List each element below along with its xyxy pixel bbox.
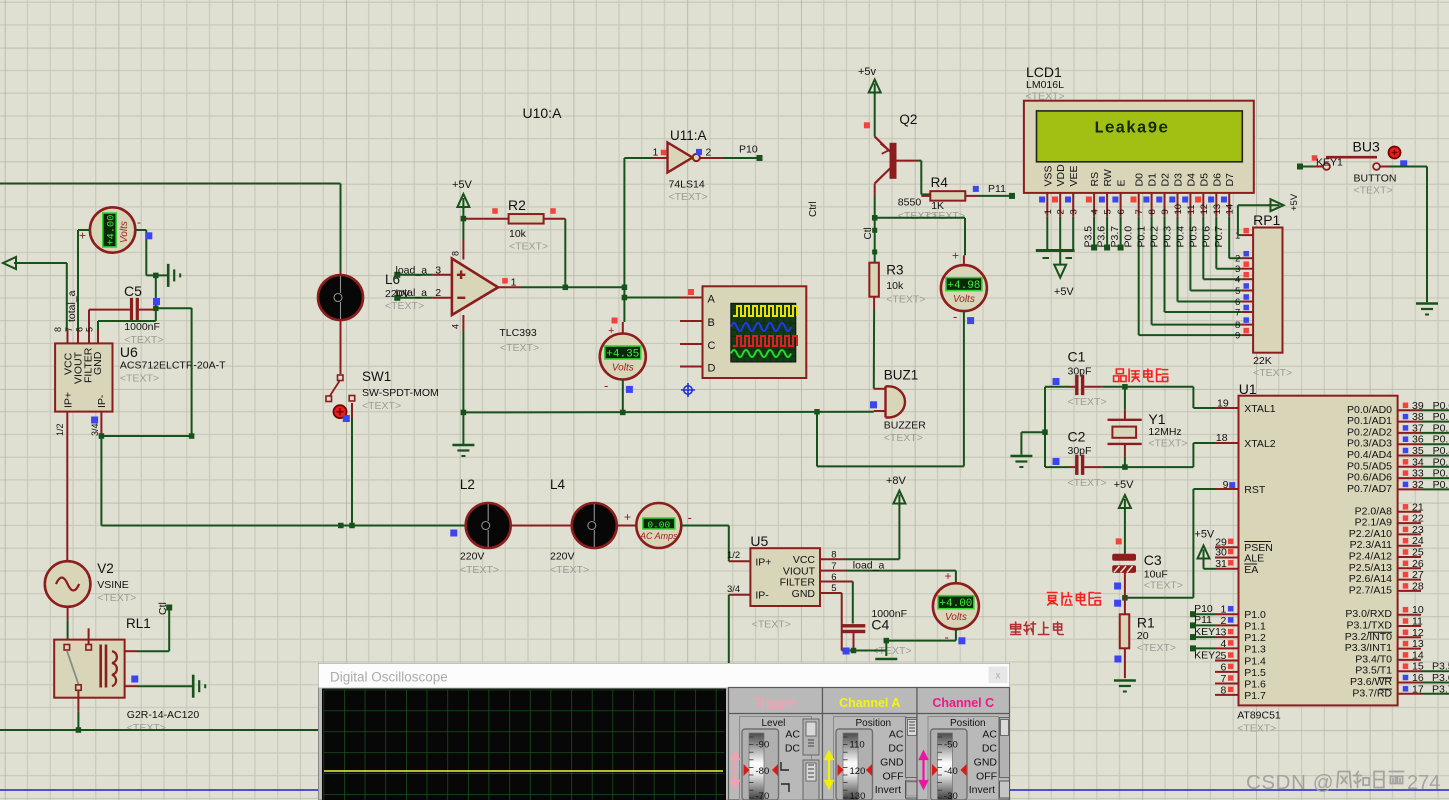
svg-text:10: 10 [1412,604,1424,616]
svg-text:P2.0/A8: P2.0/A8 [1355,505,1393,517]
svg-text:P1.1: P1.1 [1244,620,1266,632]
svg-text:Position: Position [950,718,986,729]
wire U6 GND pin up [97,321,99,331]
capacitor C5 [130,298,133,321]
svg-text:U5: U5 [750,533,768,549]
svg-text:U1: U1 [1239,381,1257,397]
oscilloscope panel Channel C [917,688,1010,800]
svg-text:Invert: Invert [969,784,995,796]
lamp L6 [318,275,363,320]
pin op-amp 1 (output) [498,286,521,288]
wire BU3 to ground [1380,166,1390,168]
svg-text:220V: 220V [460,551,485,563]
pin U5 IP+ 1/2 [729,560,751,562]
svg-text:P0.6/AD6: P0.6/AD6 [1347,472,1392,484]
svg-text:4: 4 [1235,275,1240,286]
svg-text:35: 35 [1412,445,1424,457]
svg-text:BUZ1: BUZ1 [884,368,919,383]
wire C3 to RST node [1124,573,1126,598]
svg-text:<TEXT>: <TEXT> [97,592,136,604]
node collector/voltmeter+ [872,215,878,221]
resistor R1 20 [1124,598,1126,614]
pin RP1 2 [1242,257,1253,259]
ground at crystal circuit [1010,455,1032,458]
svg-text:-: - [604,378,608,393]
svg-text:26: 26 [1412,558,1424,570]
ammeter AC Amps [636,503,681,548]
svg-text:14: 14 [1412,649,1424,661]
transistor Q2 8550 [890,143,897,179]
svg-text:P0.2: P0.2 [1433,422,1449,434]
logic analyser graph [703,286,807,378]
svg-text:U11:A: U11:A [670,128,707,143]
svg-text:+4.35: +4.35 [606,348,639,360]
IC U5 ACS712 [750,548,820,606]
wire C4 bottom net to ground [842,650,887,652]
wire voltmeter +4.35 to meter rail [622,380,624,413]
wire lamp L6 to SW1 [340,320,342,374]
svg-text:34: 34 [1412,456,1424,468]
svg-text:P1.7: P1.7 [1244,690,1266,702]
svg-text:6: 6 [1235,297,1240,308]
svg-text:20: 20 [1137,630,1149,642]
node to graph input A [622,295,628,301]
svg-text:IP+: IP+ [755,556,771,568]
capacitor C3 10uF (polarized) [1112,554,1136,561]
svg-text:AC Amps: AC Amps [639,531,678,541]
net stub load_a to pin 3 [394,272,400,278]
current sensor U6 [55,343,112,411]
svg-text:<TEXT>: <TEXT> [1354,185,1393,197]
svg-text:P3.5: P3.5 [1083,226,1095,248]
svg-text:KEY1: KEY1 [1194,626,1221,638]
svg-text:GND: GND [880,757,904,769]
svg-text:x: x [996,671,1001,682]
overline RD [1379,688,1392,690]
svg-text:<TEXT>: <TEXT> [127,722,166,734]
svg-text:<TEXT>: <TEXT> [884,432,923,444]
svg-text:P0.2: P0.2 [1149,226,1161,248]
svg-text:-: - [953,309,957,324]
svg-text:<TEXT>: <TEXT> [120,373,159,385]
wire R4 to P11 stub [978,195,1011,197]
svg-text:P0.3/AD3: P0.3/AD3 [1347,438,1392,450]
svg-text:8: 8 [831,550,836,561]
pin graph B [680,320,703,322]
svg-text:P3.6: P3.6 [1432,672,1449,684]
svg-text:LCD1: LCD1 [1026,64,1062,80]
wire LCD VSS to ground [1046,217,1048,249]
svg-text:21: 21 [1412,501,1424,513]
svg-text:7: 7 [1235,308,1240,319]
svg-text:RST: RST [1244,484,1266,496]
voltmeter +4.98 [941,265,987,311]
svg-text:3: 3 [1221,627,1227,639]
svg-text:P3.7: P3.7 [1109,226,1121,248]
label crystal circuit (Chinese) [1114,369,1127,382]
svg-text:28: 28 [1412,580,1424,592]
wire RST node to U1 RST pin [1125,597,1194,599]
svg-text:B: B [708,317,715,329]
svg-text:P0.2/AD2: P0.2/AD2 [1347,426,1392,438]
svg-text:DC: DC [982,743,998,755]
svg-text:3: 3 [1069,209,1080,214]
svg-text:P0.0: P0.0 [1123,226,1135,248]
wire C5-net down to IP- node [191,308,193,436]
resistor R3 [869,263,879,297]
wire C1 right to XTAL1 net [1084,386,1102,388]
wire LCD VEE to ground [1072,217,1074,249]
svg-text:P0.4/AD4: P0.4/AD4 [1347,449,1392,461]
pin RP1 5 [1242,290,1253,292]
lamp L2 [466,503,511,548]
svg-text:OFF: OFF [883,771,904,783]
svg-text:110: 110 [850,740,865,751]
pin op-amp 4 [462,315,464,331]
wire output to U11 node [521,286,624,288]
svg-text:IP-: IP- [755,590,769,602]
svg-text:9: 9 [1160,209,1171,214]
pin U6 IP+ 1/2 [66,412,68,437]
sheet border line (blue) [0,789,1449,791]
oscilloscope close button [989,667,1008,684]
svg-text:Ctl: Ctl [863,227,874,239]
svg-text:RL1: RL1 [126,616,151,631]
svg-text:5: 5 [85,327,95,332]
pin RP1 7 [1242,311,1253,313]
svg-text:L2: L2 [460,477,475,492]
svg-text:+5V: +5V [1194,529,1215,541]
svg-text:24: 24 [1412,535,1424,547]
svg-text:E: E [1116,179,1128,186]
wire U6 IP- to load line [100,436,102,526]
svg-text:<TEXT>: <TEXT> [1137,642,1176,654]
svg-text:P0.5: P0.5 [1187,226,1199,248]
svg-text:L4: L4 [550,477,566,492]
wire C2 left [1045,466,1069,468]
svg-text:Position: Position [856,718,892,729]
wire R3 to buzzer [873,297,875,310]
svg-text:4: 4 [1090,209,1101,214]
svg-text:36: 36 [1412,434,1424,446]
svg-text:274: 274 [1407,772,1440,794]
svg-text:27: 27 [1412,569,1424,581]
svg-text:32: 32 [1412,479,1424,491]
svg-text:+: + [624,510,631,524]
label re-power (Chinese) [1011,622,1021,635]
pin RP1 9 [1242,334,1253,336]
svg-text:VCC: VCC [793,554,816,566]
wire to XTAL2 pin [1192,443,1194,467]
svg-text:6: 6 [1221,661,1227,673]
svg-text:P0.5: P0.5 [1433,456,1449,468]
svg-text:<TEXT>: <TEXT> [669,191,708,203]
svg-text:12MHz: 12MHz [1148,426,1181,438]
svg-text:9: 9 [1235,331,1240,342]
svg-text:BU3: BU3 [1353,139,1380,155]
svg-text:AC: AC [785,729,800,741]
inverter U11:A 74LS14 [653,157,668,159]
wire relay coil bottom to ground [125,685,138,687]
trace A yellow [733,306,797,316]
svg-text:P3.0/RXD: P3.0/RXD [1345,608,1392,620]
buzzer BUZ1 [874,388,885,390]
svg-text:<TEXT>: <TEXT> [1144,580,1183,592]
svg-text:BUZZER: BUZZER [884,420,926,432]
pin U5 VCC 8 [820,558,845,560]
svg-text:120: 120 [850,766,866,777]
svg-text:P3.7: P3.7 [1432,683,1449,695]
overline WR [1378,677,1392,679]
svg-text:Leaka9e: Leaka9e [1094,119,1169,138]
label reset circuit (Chinese) [1047,593,1057,606]
pin RP1 3 [1242,268,1253,270]
wire voltmeter- to ground [135,229,146,231]
svg-text:-: - [945,630,949,645]
svg-text:Q2: Q2 [899,112,917,127]
svg-text:Volts: Volts [612,363,634,374]
oscilloscope panel Channel A [823,688,918,800]
svg-text:P11: P11 [1194,614,1212,626]
svg-text:11: 11 [1186,205,1197,215]
svg-text:P1.5: P1.5 [1244,667,1266,679]
pin U5 GND 5 [820,592,842,594]
wire relay coil top to Ctl stub [125,650,137,652]
svg-text:2: 2 [706,147,712,159]
wire main load line [101,525,466,527]
svg-text:D6: D6 [1211,173,1223,187]
svg-text:IP+: IP+ [63,392,75,408]
op-amp U10:A TLC393 [452,259,498,316]
pin RP1 1 [1242,234,1253,236]
svg-text:D4: D4 [1185,173,1197,187]
wire FILTER to C4 [852,582,854,624]
svg-text:D5: D5 [1198,173,1210,187]
pin op-amp 8 [462,241,464,260]
overline INT0 [1368,631,1392,633]
svg-text:<TEXT>: <TEXT> [1068,396,1107,408]
svg-text:ALE: ALE [1244,553,1264,565]
net stub KEY1 to U1 P1.2 [1193,636,1215,638]
pin U5 VIOUT 7 load_a to voltmeter [820,570,845,572]
svg-text:AC: AC [889,729,904,741]
voltmeter +4.35 [600,334,646,380]
svg-text:22: 22 [1412,513,1424,525]
svg-text:<TEXT>: <TEXT> [1068,477,1107,489]
svg-text:30: 30 [1215,547,1227,559]
svg-text:8: 8 [451,251,461,256]
svg-text:VSINE: VSINE [97,579,129,591]
wire RP1 pin1 to +5V arrow [1238,234,1242,236]
svg-text:V2: V2 [97,561,114,576]
svg-text:8: 8 [53,327,63,332]
node op-amp ground / meter rail [461,410,467,416]
svg-text:-: - [688,510,692,525]
oscilloscope trace (yellow) [324,770,723,772]
ground bar below LCD [1036,249,1075,252]
svg-text:P1.0: P1.0 [1244,609,1266,621]
svg-text:P0.4: P0.4 [1433,445,1449,457]
svg-text:P10: P10 [739,144,758,156]
svg-text:Volts: Volts [945,612,967,623]
svg-text:+4.98: +4.98 [947,280,980,292]
node buzzer bottom rail [814,409,820,415]
svg-text:+4.00: +4.00 [939,598,972,610]
svg-text:<TEXT>: <TEXT> [1253,367,1292,379]
svg-text:G2R-14-AC120: G2R-14-AC120 [127,709,200,721]
svg-text:C3: C3 [1144,552,1162,568]
svg-text:P3.3/INT1: P3.3/INT1 [1345,642,1392,654]
svg-text:<TEXT>: <TEXT> [362,400,401,412]
svg-text:P10: P10 [1194,603,1213,615]
svg-text:7: 7 [1134,209,1145,214]
svg-text:<TEXT>: <TEXT> [509,241,548,253]
pin U11 2 (output) to P10 stub [700,157,723,159]
svg-text:22K: 22K [1253,355,1272,367]
svg-text:0.00: 0.00 [647,519,670,530]
svg-text:1: 1 [511,277,517,289]
svg-text:<TEXT>: <TEXT> [1148,438,1187,450]
svg-text:<TEXT>: <TEXT> [1237,723,1276,735]
svg-text:8: 8 [1221,684,1227,696]
svg-text:DC: DC [785,743,801,755]
svg-text:+5V: +5V [1054,286,1075,298]
svg-text:33: 33 [1412,468,1424,480]
svg-text:P0.1: P0.1 [1433,411,1449,423]
oscilloscope panel Trigger [729,688,823,800]
wire left common vertical [1044,387,1046,467]
wire relay contact to bottom rail [77,691,79,712]
svg-text:R1: R1 [1137,615,1155,631]
svg-text:P1.6: P1.6 [1244,679,1266,691]
wire Q2 collector down [874,183,876,196]
svg-text:SW1: SW1 [362,369,391,384]
origin crosshair marker [681,383,695,397]
svg-text:2: 2 [1235,254,1240,265]
svg-text:1: 1 [1221,604,1227,616]
svg-text:+5V: +5V [452,179,473,191]
wire collector node to voltmeter +4.98 [875,217,965,219]
svg-text:5: 5 [1221,650,1227,662]
svg-text:BUTTON: BUTTON [1354,173,1397,185]
svg-text:D: D [708,362,716,374]
svg-text:P1.4: P1.4 [1244,656,1266,668]
svg-text:10: 10 [1173,204,1184,215]
svg-text:P3.4/T0: P3.4/T0 [1355,653,1392,665]
pin graph D [680,366,703,368]
node XTAL2/Y1 bottom [1122,464,1128,470]
svg-text:+4.00: +4.00 [105,215,117,246]
net stub P10 to U1 P1.0 [1193,613,1215,615]
svg-text:P2.2/A10: P2.2/A10 [1349,528,1392,540]
svg-text:1K: 1K [931,200,944,212]
svg-text:AT89C51: AT89C51 [1237,710,1281,722]
svg-text:D3: D3 [1173,173,1185,187]
svg-text:-90: -90 [756,740,770,751]
svg-text:25: 25 [1412,547,1424,559]
svg-text:-30: -30 [944,791,958,800]
svg-text:P3.6: P3.6 [1096,226,1108,248]
crystal Y1 12MHz [1124,387,1126,410]
svg-text:1000nF: 1000nF [124,321,160,333]
ground below op-amp [452,444,474,447]
svg-text:SW-SPDT-MOM: SW-SPDT-MOM [362,387,439,399]
svg-text:D2: D2 [1160,173,1172,187]
svg-text:8550: 8550 [898,197,922,209]
svg-text:VDD: VDD [1055,164,1067,187]
wire off-page arrow to U6 VCC [14,262,67,264]
svg-text:total_a: total_a [66,290,78,322]
svg-text:GND: GND [974,757,998,769]
svg-text:12: 12 [1412,627,1424,639]
svg-text:Volts: Volts [953,294,975,305]
pin RP1 8 [1242,324,1253,326]
svg-text:P11: P11 [988,183,1006,195]
svg-text:31: 31 [1215,558,1227,570]
svg-text:+5V: +5V [1114,479,1135,491]
svg-text:12: 12 [1199,204,1210,215]
wire meter rail (op-amp gnd to buzzer) [463,411,873,414]
svg-text:1: 1 [653,147,659,159]
svg-text:P0.3: P0.3 [1433,434,1449,446]
svg-text:C1: C1 [1068,349,1086,365]
svg-text:load_a: load_a [396,265,428,277]
svg-text:5: 5 [1235,286,1240,297]
svg-text:P0.1: P0.1 [1136,226,1148,248]
svg-text:1: 1 [1043,209,1054,214]
node R2/+5V/pin8 [461,216,467,222]
svg-text:13: 13 [1412,638,1424,650]
pin op-amp 3 [432,274,452,276]
wire LCD VDD to +5V arrow [1059,217,1061,265]
wire C1 left to common [1045,386,1069,388]
ground below C4 [875,658,897,661]
wire V2 to relay [67,607,69,621]
svg-text:-80: -80 [756,766,770,777]
svg-text:R4: R4 [931,175,949,190]
svg-text:14: 14 [1225,204,1236,215]
ground below R1 [1114,679,1136,682]
sine source V2 [66,437,68,561]
svg-text:Ctrl: Ctrl [808,201,819,217]
wire op-amp pin4 to ground [462,331,464,444]
svg-text:P1.2: P1.2 [1244,632,1266,644]
svg-text:P0.6: P0.6 [1200,226,1212,248]
svg-text:RW: RW [1102,169,1114,186]
wire C2 right to XTAL2 net [1084,466,1102,468]
pin graph C [680,343,703,345]
power +5V (down arrow) at LCD [1054,265,1066,278]
svg-text:XTAL2: XTAL2 [1244,438,1275,450]
wire SW1 to load line [351,403,353,418]
pin op-amp 2 [432,297,452,299]
svg-text:11: 11 [1412,616,1423,628]
svg-text:C2: C2 [1068,429,1086,445]
node voltmeter-/C5 ground net [146,274,168,276]
svg-text:30pF: 30pF [1068,366,1092,378]
trace C red [733,336,797,346]
svg-text:A: A [708,294,716,306]
svg-text:LM016L: LM016L [1026,79,1064,91]
svg-text:2: 2 [1056,209,1067,214]
wire ammeter to U5 IP+ [681,525,729,527]
svg-text:OFF: OFF [976,771,997,783]
svg-text:D0: D0 [1134,173,1146,187]
wire voltmeter+ to U6 VIOUT (total_a) [78,229,90,231]
svg-text:VEE: VEE [1068,165,1080,186]
wire L4 to ammeter [617,525,637,527]
svg-text:7: 7 [64,327,74,332]
